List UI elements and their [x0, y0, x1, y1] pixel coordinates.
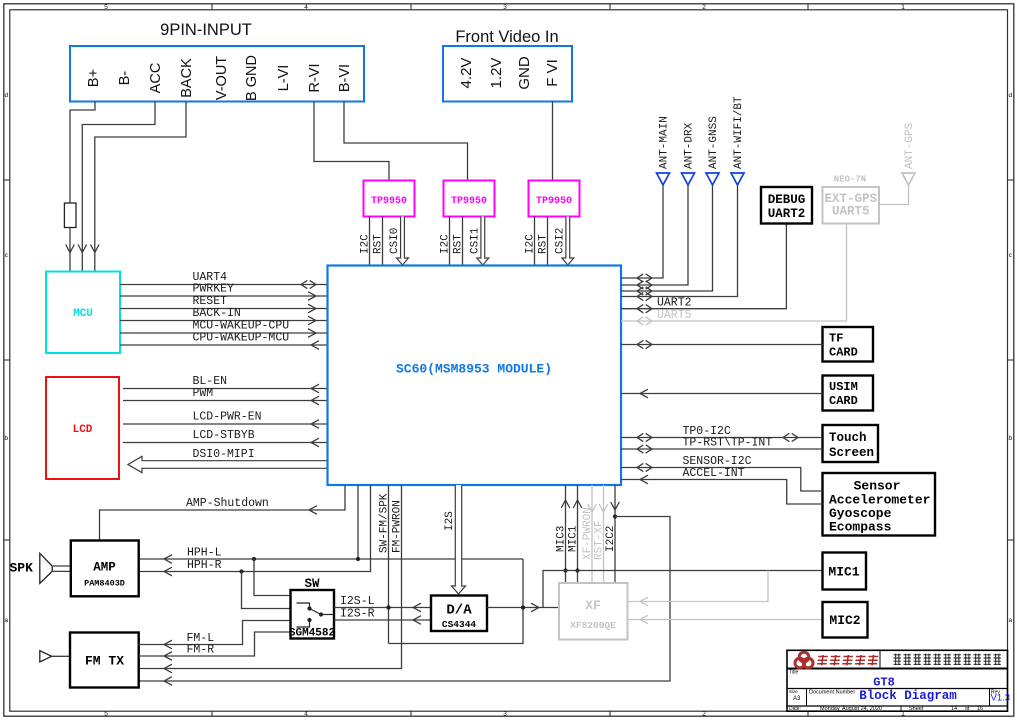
connector J1 9PIN-INPUT box	[70, 46, 364, 102]
wire RST	[382, 217, 384, 266]
svg-text:ANT-GNSS: ANT-GNSS	[708, 116, 720, 169]
video decoder U2 TP9950	[364, 181, 415, 217]
MCU U5 box	[46, 272, 120, 354]
wire HPH-R to SW	[242, 572, 291, 609]
wire BACK to MCU	[95, 102, 186, 272]
title block logo cell divider	[879, 650, 881, 668]
connector J2 Front Video In box	[443, 46, 572, 102]
title block sheet divider	[900, 706, 902, 711]
svg-text:ACCEL-INT: ACCEL-INT	[683, 467, 745, 480]
frame row ticks left	[4, 179, 10, 181]
svg-text:ANT-DRX: ANT-DRX	[684, 122, 696, 169]
USIM CARD box	[823, 376, 874, 411]
company name text	[894, 654, 901, 666]
svg-text:I2C: I2C	[360, 234, 372, 254]
wire CPU-WAKEUP-MCU	[120, 344, 328, 346]
wire ANT-GPS	[879, 185, 909, 205]
wire I2S-L	[334, 607, 431, 609]
Sensor box	[823, 473, 936, 536]
svg-text:BACK: BACK	[179, 58, 195, 98]
svg-text:RST-XF: RST-XF	[594, 520, 606, 560]
svg-text:Monday, August 24, 2020: Monday, August 24, 2020	[820, 706, 882, 712]
wire R-VI to U2	[314, 102, 389, 181]
antenna ANT-MAIN	[657, 173, 670, 185]
svg-text:V1.3: V1.3	[991, 693, 1011, 704]
svg-text:RST: RST	[538, 234, 550, 254]
wire I2C	[449, 217, 451, 266]
wire SPK to AMP	[52, 565, 71, 567]
svg-text:TP9950: TP9950	[536, 196, 572, 207]
svg-text:D/A: D/A	[446, 603, 472, 619]
wire XF-PWRON	[591, 485, 593, 583]
svg-text:b: b	[4, 435, 8, 442]
svg-text:5: 5	[104, 4, 108, 11]
wire I2C2	[614, 485, 616, 583]
MIC2 box	[823, 602, 868, 638]
wire MCU-WAKEUP-CPU	[120, 332, 328, 334]
title block date line	[787, 705, 1008, 707]
svg-text:TP9950: TP9950	[451, 196, 487, 207]
svg-text:PAM8403D: PAM8403D	[84, 579, 125, 589]
svg-text:FM-PWRON: FM-PWRON	[392, 500, 404, 553]
XF U10 box	[559, 583, 628, 640]
svg-text:MCU: MCU	[73, 308, 93, 320]
svg-text:L-VI: L-VI	[276, 65, 292, 92]
svg-text:TP-RST\TP-INT: TP-RST\TP-INT	[683, 437, 773, 450]
bus arrow CSI1	[477, 217, 489, 266]
MIC1 box	[823, 553, 867, 590]
svg-text:FM TX: FM TX	[85, 654, 124, 669]
Touch Screen box	[823, 425, 879, 462]
svg-text:I2S-L: I2S-L	[340, 595, 375, 608]
svg-text:9PIN-INPUT: 9PIN-INPUT	[160, 21, 252, 39]
wire RESET	[120, 308, 328, 310]
module U1 SC60 box	[328, 266, 622, 486]
svg-text:1.2V: 1.2V	[488, 58, 505, 89]
svg-text:ANT-MAIN: ANT-MAIN	[659, 116, 671, 169]
svg-text:CARD: CARD	[829, 394, 858, 408]
svg-text:SGM4582: SGM4582	[289, 628, 335, 640]
wire USIM CARD	[621, 393, 823, 395]
wire I2C	[369, 217, 371, 266]
svg-text:I2C2: I2C2	[605, 526, 617, 552]
wire XF in1 gray	[628, 571, 769, 602]
wire UART5	[621, 224, 847, 322]
svg-text:2: 2	[702, 4, 706, 11]
wire AMP-Shutdown	[100, 485, 346, 541]
DAC U9 D/A box	[431, 596, 487, 632]
wire SW-FM/SPK	[388, 485, 390, 644]
svg-text:XF8200QE: XF8200QE	[570, 620, 616, 631]
wire LCD-PWR-EN	[123, 423, 328, 425]
wire FM-L	[139, 621, 291, 645]
antenna FM TX	[40, 651, 52, 662]
svg-text:d: d	[1008, 92, 1012, 99]
svg-text:B-VI: B-VI	[337, 64, 353, 92]
wire MIC1	[577, 485, 579, 583]
wire MIC1 line	[543, 571, 823, 608]
svg-text:CS4344: CS4344	[442, 619, 477, 630]
svg-text:AMP-Shutdown: AMP-Shutdown	[186, 497, 269, 510]
svg-text:Block Diagram: Block Diagram	[859, 689, 957, 703]
wire antenna to FM TX	[52, 655, 70, 657]
svg-text:Date:: Date:	[789, 706, 801, 712]
svg-text:UART5: UART5	[657, 309, 692, 322]
wire UART4	[120, 284, 328, 286]
svg-text:TP9950: TP9950	[371, 196, 407, 207]
switch U8 SW box	[291, 590, 335, 639]
video decoder U4 TP9950	[529, 181, 580, 217]
svg-text:SW-FM/SPK: SW-FM/SPK	[379, 493, 391, 553]
antenna ANT-WIFI/BT	[731, 173, 744, 185]
svg-text:I2S: I2S	[444, 511, 456, 531]
wire SENSOR-I2C	[621, 468, 823, 492]
TF CARD box	[823, 327, 874, 362]
wire I2S-R	[334, 619, 431, 621]
svg-text:LCD: LCD	[73, 424, 93, 436]
svg-text:Title: Title	[789, 670, 798, 676]
wire resistor to MCU	[69, 228, 71, 272]
svg-text:USIM: USIM	[829, 380, 858, 394]
wire TF CARD	[621, 344, 823, 346]
svg-text:GND: GND	[516, 56, 533, 90]
svg-text:4: 4	[304, 711, 308, 718]
svg-text:RST: RST	[453, 234, 465, 254]
antenna ANT-GNSS	[706, 173, 719, 185]
wire B+ to resistor	[70, 102, 95, 204]
wire I2C2 branch to FM TX	[139, 517, 670, 682]
svg-text:MIC2: MIC2	[829, 613, 860, 628]
AMP U6 box	[71, 541, 139, 597]
EXT-GPS UART5 box	[823, 187, 880, 224]
svg-text:MIC1: MIC1	[828, 565, 859, 580]
wire D/A to XF	[487, 607, 559, 609]
svg-text:ACC: ACC	[148, 63, 164, 94]
svg-text:d: d	[4, 92, 8, 99]
wire PWM	[123, 400, 328, 402]
svg-text:TF: TF	[829, 332, 843, 346]
speaker SPK symbol	[40, 553, 52, 583]
svg-text:CSI1: CSI1	[469, 227, 481, 254]
wire RST-XF	[603, 485, 605, 583]
wire BACK-IN	[120, 320, 328, 322]
svg-text:CPU-WAKEUP-MCU: CPU-WAKEUP-MCU	[193, 332, 290, 345]
wire ANT-GNSS	[621, 185, 713, 291]
svg-text:3: 3	[503, 711, 507, 718]
svg-text:B+: B+	[86, 69, 102, 87]
wire FM-PWRON	[139, 485, 402, 669]
svg-text:SPK: SPK	[10, 561, 34, 576]
svg-text:Front Video In: Front Video In	[455, 28, 558, 46]
svg-text:Size: Size	[789, 689, 798, 694]
svg-text:PWM: PWM	[193, 387, 214, 400]
svg-text:B-: B-	[117, 71, 133, 86]
svg-text:MIC3: MIC3	[556, 526, 568, 552]
bus arrow DSI0-MIPI	[128, 456, 328, 472]
svg-text:B GND: B GND	[244, 55, 260, 101]
title block outline	[787, 650, 1008, 711]
wire TP0-I2C	[621, 437, 823, 439]
switch symbol	[297, 603, 310, 609]
svg-text:NEO-7N: NEO-7N	[834, 175, 866, 185]
svg-text:SW: SW	[304, 577, 320, 591]
svg-text:Sheet: Sheet	[909, 706, 924, 712]
svg-text:16: 16	[977, 706, 983, 712]
svg-text:UART2: UART2	[768, 207, 806, 221]
svg-text:HPH-L: HPH-L	[187, 547, 222, 560]
svg-text:V-OUT: V-OUT	[214, 56, 230, 100]
svg-text:of: of	[965, 706, 970, 712]
svg-text:BACK-IN: BACK-IN	[193, 307, 241, 320]
svg-text:DSI0-MIPI: DSI0-MIPI	[193, 448, 255, 461]
wire FM-R	[139, 632, 291, 656]
svg-text:ANT-WIFI/BT: ANT-WIFI/BT	[733, 96, 745, 169]
company logo	[795, 652, 813, 668]
wire RST	[462, 217, 464, 266]
frame column ticks bottom	[211, 711, 213, 716]
svg-text:A3: A3	[793, 696, 801, 702]
svg-text:CARD: CARD	[829, 346, 858, 360]
wire TP-RST TP-INT	[621, 448, 823, 450]
svg-text:CSI2: CSI2	[554, 228, 566, 254]
wire HPH-R	[139, 485, 371, 572]
wire LCD-STBYB	[123, 442, 328, 444]
resistor R1	[64, 203, 76, 228]
svg-text:LCD-PWR-EN: LCD-PWR-EN	[193, 411, 262, 424]
svg-text:LCD-STBYB: LCD-STBYB	[193, 429, 255, 442]
wire ANT-MAIN	[621, 185, 663, 278]
logo text zhizhexingtianxia	[817, 655, 828, 666]
svg-text:Screen: Screen	[829, 446, 874, 460]
svg-text:a: a	[4, 617, 8, 624]
bus arrow CSI0	[397, 217, 409, 266]
svg-text:Document Number: Document Number	[809, 690, 855, 696]
wire MIC3	[565, 485, 567, 583]
wire F VI to U4	[552, 102, 554, 181]
wire BL-EN	[123, 388, 328, 390]
wire HPH-L to SW	[254, 559, 291, 596]
svg-text:Ecompass: Ecompass	[829, 520, 892, 535]
svg-text:PWRKEY: PWRKEY	[193, 283, 235, 296]
svg-text:5: 5	[104, 711, 108, 718]
svg-text:RST: RST	[373, 234, 385, 254]
wire B-VI to U3	[344, 102, 468, 181]
svg-text:2: 2	[702, 711, 706, 718]
svg-text:R-VI: R-VI	[307, 64, 323, 93]
bus arrow CSI2	[562, 217, 574, 266]
frame row ticks right	[1008, 179, 1014, 181]
svg-text:4: 4	[304, 4, 308, 11]
svg-text:Sensor: Sensor	[854, 479, 901, 494]
bus arrow I2S	[452, 485, 466, 594]
svg-text:F VI: F VI	[544, 59, 561, 87]
wire UART2	[621, 224, 786, 309]
video decoder U3 TP9950	[444, 181, 495, 217]
title block size cell divider	[806, 689, 808, 707]
svg-text:CSI0: CSI0	[389, 228, 401, 254]
svg-text:4.2V: 4.2V	[458, 58, 475, 89]
wire RST	[547, 217, 549, 266]
svg-text:I2S-R: I2S-R	[340, 608, 375, 621]
wire ANT-WIFI/BT	[621, 185, 738, 297]
LCD box	[46, 377, 119, 479]
svg-text:SC60(MSM8953 MODULE): SC60(MSM8953 MODULE)	[396, 362, 552, 377]
svg-text:AMP: AMP	[93, 561, 116, 575]
frame column ticks top	[211, 4, 213, 10]
svg-text:3: 3	[503, 4, 507, 11]
svg-text:I2C: I2C	[525, 234, 537, 254]
svg-text:HPH-R: HPH-R	[187, 559, 222, 572]
wire ACCEL-INT	[621, 480, 823, 505]
svg-text:UART2: UART2	[657, 297, 692, 310]
wire ACC to MCU	[82, 102, 155, 272]
svg-text:GT8: GT8	[873, 676, 895, 690]
svg-text:I2C: I2C	[440, 234, 452, 254]
svg-text:MIC1: MIC1	[568, 525, 580, 552]
wire I2C	[534, 217, 536, 266]
antenna ANT-GPS	[902, 173, 915, 185]
svg-text:1: 1	[901, 4, 905, 11]
svg-text:a: a	[1008, 617, 1012, 624]
svg-text:Touch: Touch	[829, 431, 867, 445]
title block row line	[787, 688, 1008, 690]
wire ANT-DRX	[621, 185, 688, 285]
svg-text:FM-R: FM-R	[187, 644, 215, 657]
antenna ANT-DRX	[682, 173, 695, 185]
svg-text:UART5: UART5	[832, 205, 870, 219]
FM TX U7 box	[70, 633, 139, 688]
svg-text:XF: XF	[585, 598, 601, 613]
wire HPH-L	[357, 485, 359, 559]
svg-text:ANT-GPS: ANT-GPS	[904, 122, 916, 169]
svg-text:14: 14	[951, 706, 957, 712]
DEBUG UART2 box	[761, 187, 812, 224]
svg-text:XF-PWRON: XF-PWRON	[582, 507, 594, 560]
svg-text:DEBUG: DEBUG	[768, 193, 806, 207]
svg-text:b: b	[1008, 435, 1012, 442]
wire PWRKEY	[120, 295, 328, 297]
wire loop HPH to I2S-L	[389, 559, 524, 644]
wire XF in2 gray	[628, 619, 823, 621]
